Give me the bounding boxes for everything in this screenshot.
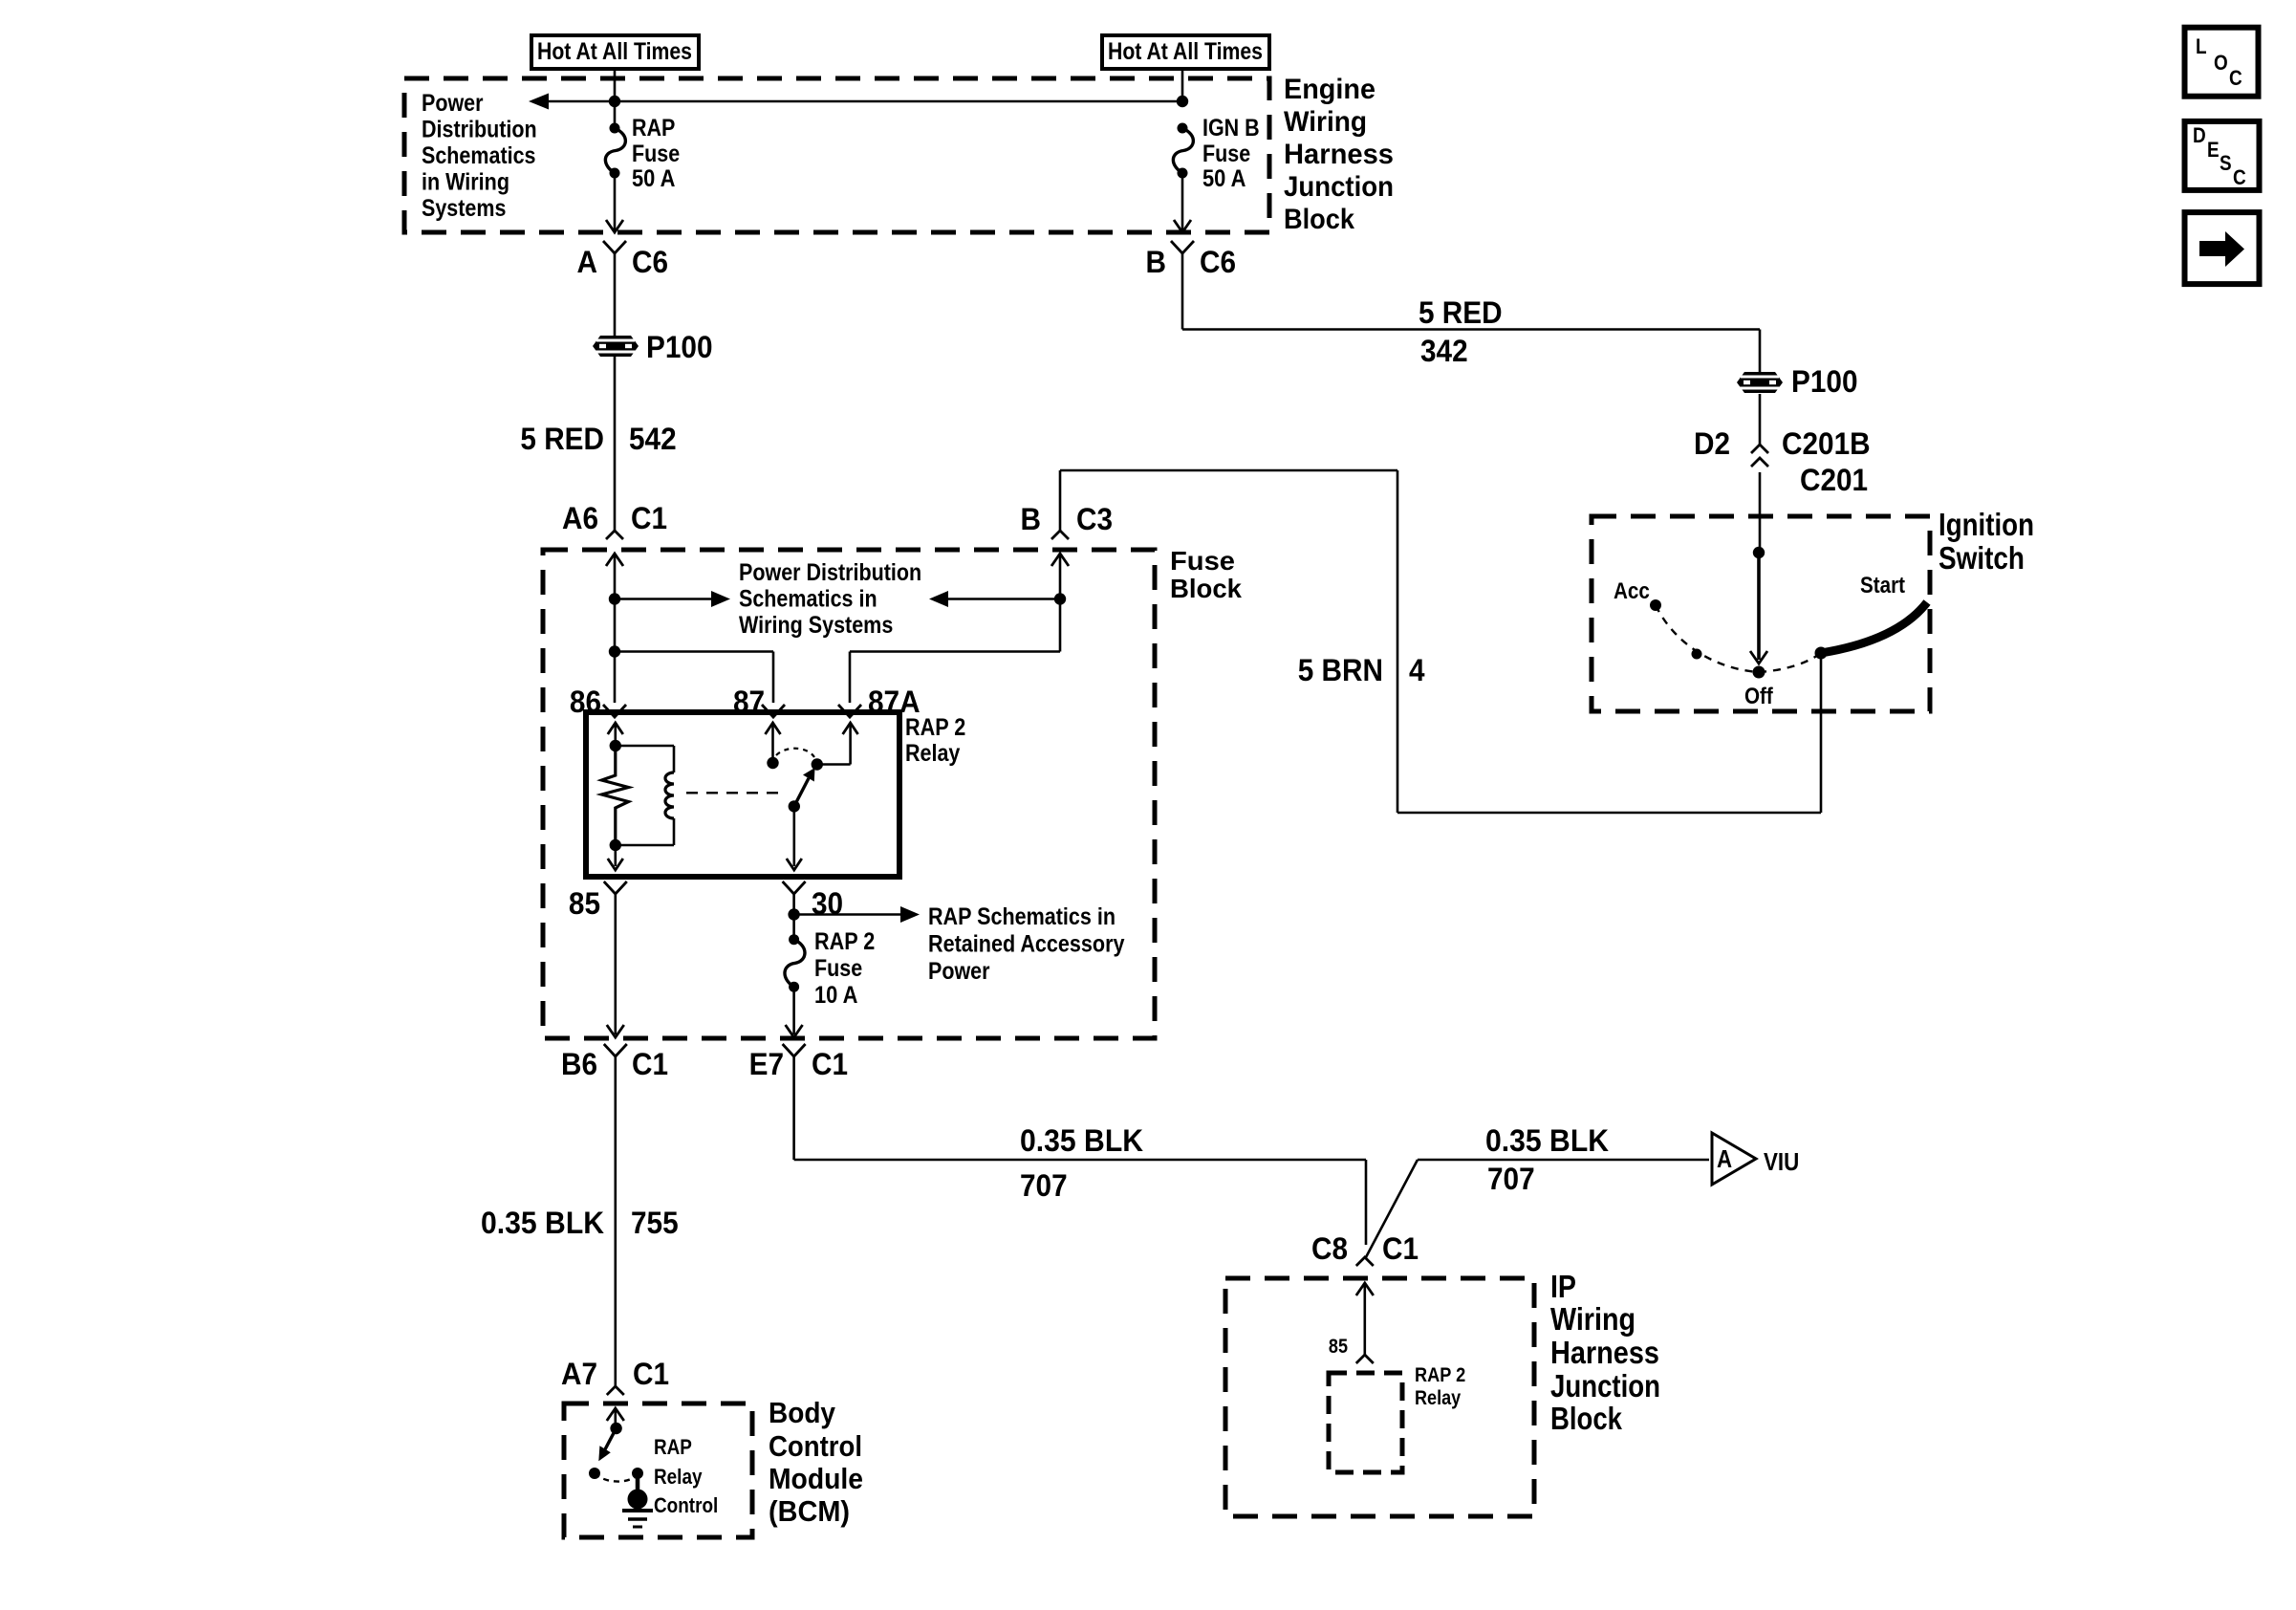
svg-text:RAP Schematics in: RAP Schematics in — [928, 903, 1116, 930]
svg-text:Switch: Switch — [1939, 540, 2025, 576]
svg-text:Off: Off — [1744, 684, 1774, 709]
svg-text:Power: Power — [928, 958, 990, 985]
svg-text:O: O — [2214, 51, 2228, 75]
svg-text:Systems: Systems — [422, 195, 506, 222]
svg-text:D2: D2 — [1694, 426, 1730, 461]
svg-text:RAP: RAP — [632, 115, 675, 141]
svg-text:707: 707 — [1020, 1168, 1068, 1203]
svg-text:Engine: Engine — [1284, 74, 1375, 105]
svg-text:Control: Control — [654, 1493, 718, 1517]
svg-text:E: E — [2207, 138, 2220, 162]
svg-text:A7: A7 — [561, 1357, 597, 1391]
svg-text:5 BRN: 5 BRN — [1298, 653, 1383, 687]
svg-text:C3: C3 — [1076, 502, 1113, 536]
svg-text:0.35 BLK: 0.35 BLK — [1485, 1123, 1609, 1158]
svg-text:VIU: VIU — [1764, 1147, 1799, 1176]
svg-text:C6: C6 — [1200, 245, 1236, 279]
svg-text:Start: Start — [1860, 573, 1905, 598]
svg-text:Junction: Junction — [1550, 1368, 1660, 1403]
svg-text:5 RED: 5 RED — [1419, 295, 1503, 330]
svg-text:Relay: Relay — [654, 1465, 703, 1489]
svg-text:Wiring: Wiring — [1284, 106, 1367, 138]
svg-text:B6: B6 — [561, 1047, 597, 1081]
svg-text:Distribution: Distribution — [422, 117, 537, 143]
svg-text:Fuse: Fuse — [1202, 141, 1250, 167]
svg-text:0.35 BLK: 0.35 BLK — [1020, 1123, 1143, 1158]
svg-text:50 A: 50 A — [1202, 165, 1245, 192]
svg-text:Relay: Relay — [905, 740, 960, 767]
svg-text:0.35 BLK: 0.35 BLK — [481, 1206, 604, 1240]
svg-text:C8: C8 — [1311, 1231, 1348, 1266]
svg-text:Harness: Harness — [1550, 1335, 1659, 1370]
svg-text:Hot At All Times: Hot At All Times — [537, 38, 692, 65]
svg-text:P100: P100 — [1791, 364, 1858, 399]
svg-text:Schematics in: Schematics in — [739, 586, 877, 613]
svg-text:Ignition: Ignition — [1939, 507, 2034, 542]
svg-text:Junction: Junction — [1284, 171, 1394, 203]
svg-text:P100: P100 — [646, 330, 713, 364]
svg-text:342: 342 — [1420, 334, 1468, 368]
svg-text:Wiring: Wiring — [1550, 1301, 1635, 1337]
svg-text:Schematics: Schematics — [422, 142, 536, 169]
svg-text:(BCM): (BCM) — [769, 1494, 850, 1528]
svg-text:C6: C6 — [632, 245, 668, 279]
svg-text:Fuse: Fuse — [632, 141, 680, 167]
svg-text:RAP 2: RAP 2 — [905, 714, 965, 741]
svg-text:IP: IP — [1550, 1269, 1576, 1304]
svg-text:RAP 2: RAP 2 — [1415, 1364, 1465, 1386]
svg-text:Harness: Harness — [1284, 139, 1394, 170]
svg-text:A: A — [1717, 1144, 1732, 1173]
svg-text:B: B — [1021, 502, 1042, 536]
svg-text:C1: C1 — [632, 1047, 668, 1081]
svg-text:Acc: Acc — [1614, 578, 1650, 604]
svg-text:Wiring Systems: Wiring Systems — [739, 612, 893, 639]
svg-text:10 A: 10 A — [814, 982, 857, 1009]
svg-text:A: A — [577, 245, 598, 279]
svg-text:Body: Body — [769, 1396, 836, 1429]
svg-text:755: 755 — [631, 1206, 679, 1240]
svg-text:Control: Control — [769, 1429, 862, 1463]
svg-text:707: 707 — [1487, 1162, 1535, 1196]
svg-text:4: 4 — [1409, 653, 1425, 687]
svg-text:in Wiring: in Wiring — [422, 169, 509, 196]
svg-text:542: 542 — [629, 422, 677, 456]
svg-text:RAP 2: RAP 2 — [814, 928, 875, 955]
svg-text:C: C — [2233, 165, 2246, 189]
svg-text:Module: Module — [769, 1462, 863, 1495]
svg-text:Fuse: Fuse — [1170, 546, 1235, 576]
svg-text:RAP: RAP — [654, 1435, 692, 1459]
svg-text:85: 85 — [569, 886, 600, 921]
svg-text:Retained Accessory: Retained Accessory — [928, 931, 1125, 958]
svg-text:Block: Block — [1170, 574, 1242, 603]
svg-text:C201: C201 — [1800, 463, 1868, 497]
svg-text:Power Distribution: Power Distribution — [739, 559, 921, 586]
svg-text:C1: C1 — [1382, 1231, 1419, 1266]
svg-text:C1: C1 — [631, 501, 667, 535]
svg-text:C201B: C201B — [1782, 426, 1871, 461]
svg-text:Relay: Relay — [1415, 1387, 1461, 1409]
svg-text:A6: A6 — [562, 501, 598, 535]
svg-text:Power: Power — [422, 90, 484, 117]
svg-text:C1: C1 — [812, 1047, 848, 1081]
svg-text:Block: Block — [1550, 1401, 1623, 1436]
svg-text:D: D — [2193, 123, 2206, 147]
svg-text:L: L — [2196, 34, 2207, 58]
svg-text:50 A: 50 A — [632, 165, 675, 192]
svg-text:5 RED: 5 RED — [520, 422, 604, 456]
svg-text:B: B — [1146, 245, 1167, 279]
svg-text:85: 85 — [1329, 1336, 1348, 1358]
svg-text:E7: E7 — [749, 1047, 784, 1081]
svg-text:Hot At All Times: Hot At All Times — [1108, 38, 1263, 65]
svg-text:Block: Block — [1284, 204, 1354, 235]
svg-text:IGN B: IGN B — [1202, 115, 1260, 141]
svg-text:S: S — [2220, 151, 2232, 175]
svg-text:Fuse: Fuse — [814, 955, 862, 982]
svg-text:C1: C1 — [633, 1357, 669, 1391]
svg-text:C: C — [2229, 66, 2242, 90]
